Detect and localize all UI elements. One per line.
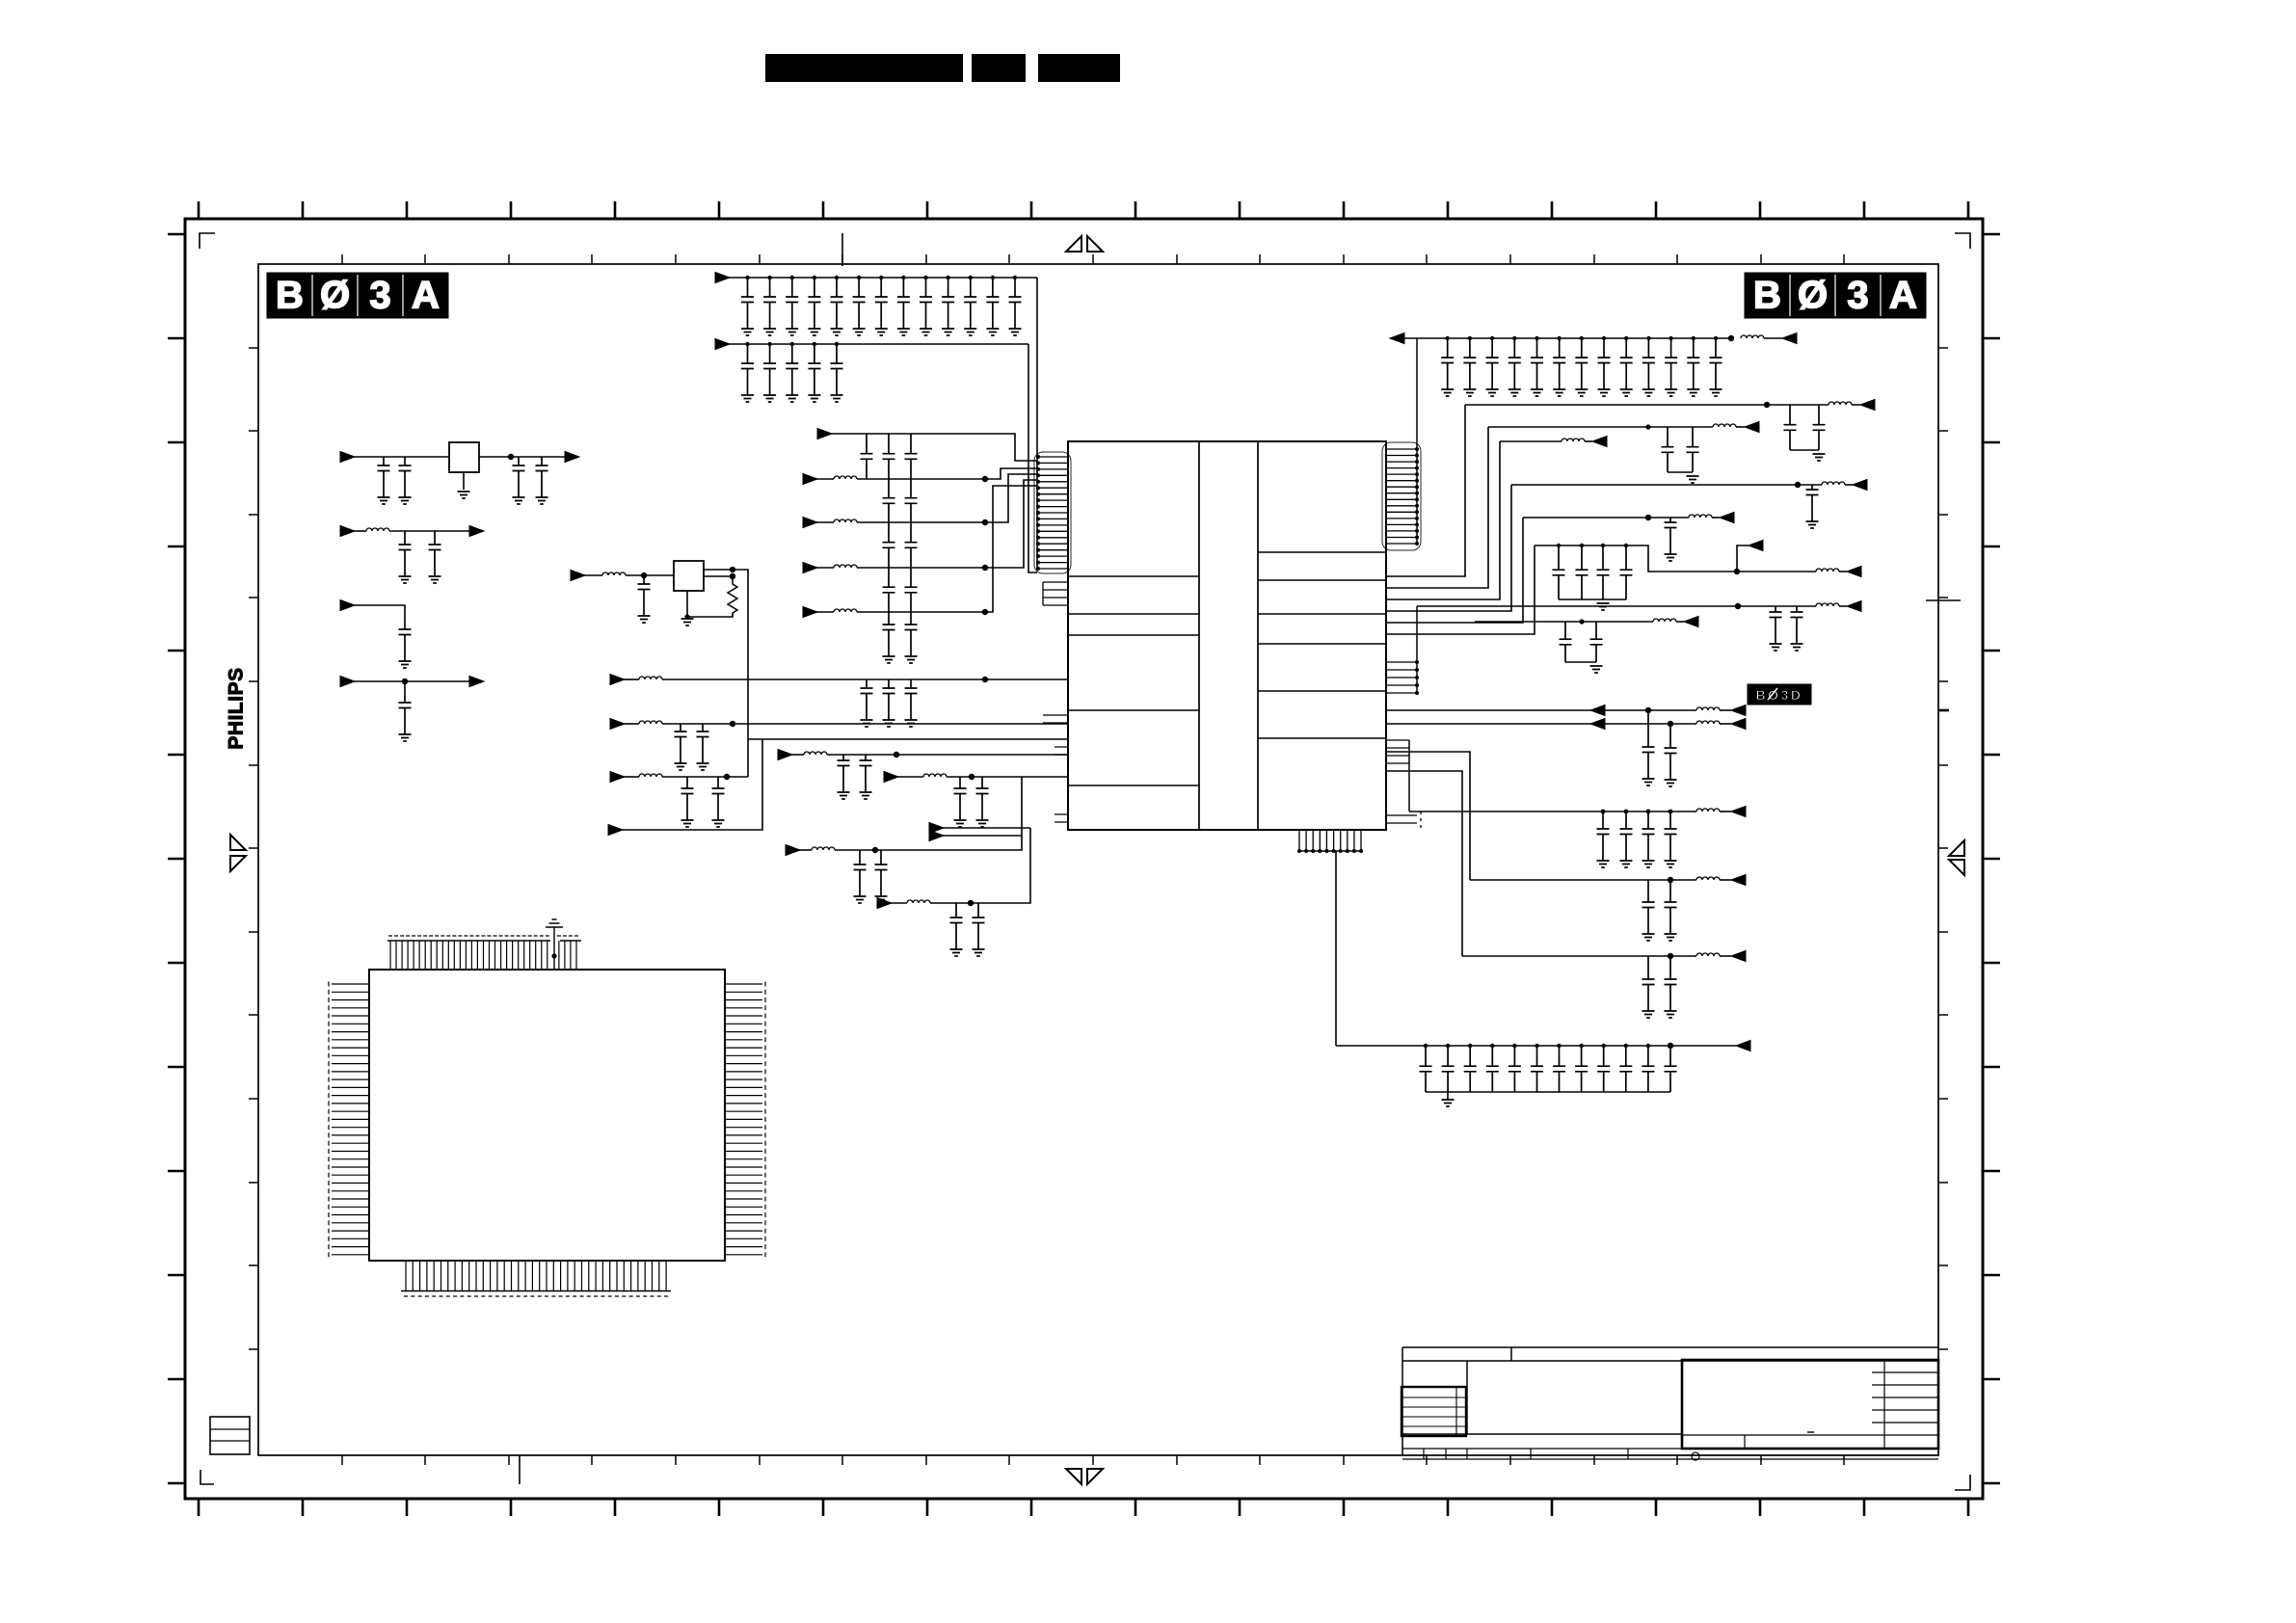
ground [1687, 389, 1699, 396]
off-page connector arrow A12 [803, 607, 817, 618]
capacitor C63 [950, 903, 963, 949]
junction J62 [1668, 721, 1673, 727]
wire U3 ground pin (top) [553, 927, 555, 970]
capacitor C23 [786, 344, 798, 395]
ground [1806, 521, 1819, 528]
off-page connector arrow A25 [1592, 437, 1607, 447]
off-page connector arrow A10 [803, 518, 817, 528]
inductor L1 [366, 528, 389, 531]
alignment triangle pair top centre [1066, 236, 1103, 252]
inner border tick marks top [342, 254, 1844, 264]
capacitor C15 [897, 278, 910, 329]
ground [741, 329, 754, 335]
voltage regulator U2 [449, 442, 479, 472]
capacitor C73 [1597, 545, 1610, 599]
junction J26 [1468, 336, 1472, 340]
off-page connector arrow A9 [803, 474, 817, 485]
corner mark bottom-left [200, 1470, 214, 1484]
ground [942, 329, 954, 335]
wire [857, 480, 1037, 568]
title block registration circle [1692, 1452, 1699, 1460]
capacitor C22 [763, 344, 776, 395]
svg-text:A: A [412, 275, 440, 317]
ground [838, 792, 850, 799]
wire [943, 827, 1030, 829]
wire [624, 723, 639, 725]
wire [943, 835, 1022, 837]
wire [704, 576, 733, 581]
off-page connector arrow A37 [1736, 1041, 1750, 1051]
wire [1462, 955, 1696, 957]
junction J72 [1490, 1044, 1494, 1048]
inner border long centre tick bottom [519, 1455, 521, 1484]
inductor L2 [602, 572, 626, 575]
outer border tick marks right [1983, 234, 2000, 1483]
capacitor C78 [1590, 622, 1603, 662]
ground [681, 619, 694, 625]
inductor L10 [1816, 603, 1839, 606]
ground [1687, 476, 1699, 483]
IC U3 top pin end ticks [388, 935, 578, 937]
off-page connector arrow A5 [715, 273, 730, 283]
wire bank ground stem [1447, 1092, 1449, 1100]
off-page connector arrow A4 [571, 571, 585, 581]
capacitor C60 [712, 777, 725, 820]
junction J69 [1424, 1044, 1428, 1048]
junction J64 [1624, 810, 1629, 814]
corner mark top-left [200, 233, 215, 249]
junction J59 [1735, 603, 1741, 609]
wire [799, 849, 812, 851]
inductor L2 [834, 519, 857, 522]
wire VDD bus 1 drop to IC [1036, 278, 1038, 569]
wire [1523, 517, 1689, 519]
ground [883, 720, 895, 727]
inductor L11 [907, 900, 930, 903]
capacitor C38 [1710, 338, 1722, 389]
capacitor C17 [942, 278, 954, 329]
capacitor C14 [875, 278, 888, 329]
capacitor C59 [681, 777, 694, 820]
capacitor C30 [1531, 338, 1543, 389]
off-page connector arrow A7 [1390, 333, 1404, 344]
capacitor C40 [883, 434, 895, 479]
IC U1 right column section dividers [1258, 552, 1386, 738]
wire [831, 434, 1037, 461]
ground [697, 763, 709, 770]
wire [1511, 484, 1822, 486]
wire [729, 343, 1028, 345]
ground [378, 497, 390, 504]
resistor R1 [728, 581, 737, 616]
alignment triangle pair right centre [1949, 840, 1964, 875]
off-page connector arrow A28 [1749, 541, 1763, 551]
capacitor C99 [1642, 1046, 1654, 1092]
svg-text:Ø: Ø [1798, 275, 1828, 317]
capacitor C18 [964, 278, 976, 329]
wire [827, 754, 1068, 756]
title block small dash [1807, 1431, 1814, 1433]
ground [536, 497, 548, 504]
junction J71 [1468, 1044, 1472, 1048]
ground [1442, 1100, 1455, 1106]
wire [662, 723, 1068, 725]
junction J50 [1764, 402, 1770, 408]
title block bottom strip [1402, 1449, 1938, 1459]
wire cap pair bottom join [1565, 661, 1596, 663]
capacitor C21 [741, 344, 754, 395]
capacitor C67 [1662, 427, 1674, 472]
capacitor C79 [1642, 710, 1655, 779]
junction J78 [1624, 1044, 1628, 1048]
wire [1386, 771, 1462, 956]
wire [1386, 752, 1470, 880]
wire [816, 611, 834, 613]
capacitor C77 [1560, 622, 1572, 662]
off-page connector arrow A34 [1731, 807, 1746, 817]
ground [1791, 644, 1803, 651]
junction J16 [946, 276, 949, 279]
capacitor C92 [1486, 1046, 1499, 1092]
wire [1764, 337, 1782, 339]
crystal oscillator module X1 [674, 561, 704, 591]
junction J81 [1668, 1043, 1673, 1049]
inductor L4 [834, 609, 857, 612]
inductor L3 [834, 565, 857, 568]
junction J11 [835, 276, 839, 279]
junction J17 [969, 276, 973, 279]
ground [905, 720, 918, 727]
outer border tick marks left [168, 234, 185, 1483]
inductor L6 [1562, 439, 1585, 441]
wire [1028, 344, 1037, 572]
off-page connector arrow filter row 2 out [469, 526, 484, 537]
wire [354, 680, 469, 682]
capacitor C6 [429, 531, 441, 576]
wire cap pair bottom join [1668, 471, 1693, 473]
IC U3 left pin end ticks [328, 982, 330, 1258]
capacitor C45 [905, 522, 918, 568]
junction J49 [968, 900, 974, 906]
ground [1620, 861, 1633, 867]
IC U1 internal column line right [1257, 441, 1259, 830]
junction J63 [1601, 810, 1606, 814]
capacitor C50 [861, 679, 873, 720]
wire [1390, 337, 1731, 339]
ground [1441, 389, 1454, 396]
capacitor C47 [905, 568, 918, 612]
title block top divider [1510, 1347, 1512, 1361]
capacitor C19 [986, 278, 999, 329]
redacted title bar 1 [765, 54, 963, 82]
wire [1409, 811, 1696, 812]
capacitor C72 [1576, 545, 1589, 599]
title block main box rows [1682, 1360, 1938, 1449]
wire [729, 277, 1037, 279]
wire [1465, 404, 1829, 406]
capacitor C84 [1665, 811, 1677, 861]
ground [854, 896, 867, 903]
ground [638, 616, 651, 623]
capacitor C25 [831, 344, 843, 395]
junction J15 [923, 276, 927, 279]
ground [712, 820, 725, 827]
inductor L5 [639, 677, 662, 679]
inductor L14 [1696, 809, 1720, 811]
inner border frame [258, 264, 1938, 1455]
ground [399, 497, 412, 504]
junction J21 [767, 342, 771, 346]
capacitor C65 [1784, 405, 1797, 450]
wire capacitor bank bottom bus [1426, 1091, 1670, 1093]
junction J76 [1579, 1044, 1583, 1048]
junction J34 [1646, 336, 1650, 340]
IC U1 pin group left B [1043, 582, 1068, 605]
wire regulator output [479, 456, 565, 458]
IC U1 left column section dividers [1068, 576, 1199, 785]
ground [1710, 389, 1722, 396]
inductor L15 [1696, 877, 1720, 880]
capacitor C95 [1553, 1046, 1565, 1092]
capacitor C96 [1575, 1046, 1588, 1092]
ground [513, 497, 525, 504]
wire [1585, 440, 1592, 442]
IC U3 top pin crossbar [387, 940, 581, 942]
off-page connector arrow A18 [608, 825, 623, 836]
off-page connector arrow VREG out [565, 452, 579, 463]
capacitor C36 [1665, 338, 1677, 389]
wire [816, 478, 834, 480]
IC U1 pin group left C [1043, 715, 1068, 723]
off-page connector arrow A24 [1745, 422, 1759, 433]
svg-text:PHILIPS: PHILIPS [226, 667, 248, 749]
capacitor C68 [1687, 427, 1699, 472]
wire [622, 739, 762, 830]
capacitor C98 [1619, 1046, 1632, 1092]
junction dots pin group right B [1415, 660, 1419, 695]
ground [1590, 666, 1603, 673]
wire [1386, 545, 1535, 634]
capacitor C42 [883, 479, 895, 522]
off-page connector arrow A3 [340, 677, 355, 687]
wire AVDD drop to pin group right A [1416, 338, 1418, 544]
capacitor C88 [1665, 956, 1677, 1011]
capacitor C7 [638, 575, 651, 616]
sheet micro-table bottom-left [210, 1417, 250, 1454]
ground [920, 329, 932, 335]
capacitor C58 [976, 777, 989, 820]
wire [857, 468, 1037, 479]
junction J6 [684, 614, 689, 619]
redacted title bar 3 [1038, 54, 1120, 82]
capacitor C62 [875, 850, 888, 896]
wire pin group right C bus [1408, 740, 1410, 811]
off-page connector arrow A15 [778, 750, 792, 760]
junction J4 [730, 567, 735, 572]
wire [624, 678, 639, 680]
wire [1488, 426, 1713, 428]
capacitor C82 [1620, 811, 1633, 861]
off-page connector arrow VIN [340, 452, 355, 463]
sheet code label B03A top-left [267, 273, 448, 318]
ground [399, 734, 412, 741]
title block column divider [1466, 1361, 1468, 1434]
capacitor C97 [1597, 1046, 1610, 1092]
outer border tick marks bottom [199, 1499, 1968, 1516]
off-page connector arrow A32 [1731, 705, 1746, 716]
wire [1720, 709, 1731, 711]
wire [1839, 605, 1847, 607]
capacitor C3 [513, 457, 525, 497]
junction J51 [1645, 424, 1650, 429]
junction J9 [790, 276, 794, 279]
capacitor C90 [1442, 1046, 1455, 1092]
ground [897, 329, 910, 335]
inductor L1 [834, 476, 857, 479]
capacitor C44 [883, 522, 895, 568]
ground [429, 576, 441, 583]
inner border long centre tick right [1926, 599, 1961, 601]
junction J20 [745, 342, 749, 346]
capacitor C9 (electrolytic) [399, 623, 412, 661]
wire cluster bottom join [1559, 599, 1626, 600]
signal direction arrow [1590, 719, 1605, 730]
ground [973, 949, 985, 956]
ground [861, 720, 873, 727]
ground [1665, 934, 1677, 941]
inductor L11 [1653, 619, 1676, 622]
capacitor C12 [831, 278, 843, 329]
IC U1 pin stubs right D [1386, 811, 1421, 828]
junction J77 [1602, 1044, 1606, 1048]
IC U1 pin group bottom [1299, 830, 1361, 851]
inductor L16 [1696, 953, 1720, 956]
off-page connector arrow A33 [1731, 719, 1746, 730]
junction J58 [1734, 569, 1740, 574]
junction J14 [901, 276, 905, 279]
ground [976, 820, 989, 827]
wire [897, 776, 923, 778]
inductor L9 [639, 774, 662, 777]
off-page connector arrow A27 [1720, 513, 1734, 523]
junction J57 [1624, 544, 1628, 547]
capacitor C54 [697, 724, 709, 763]
wire [816, 521, 834, 523]
capacitor C29 [1508, 338, 1521, 389]
wire [748, 738, 1068, 740]
ground [1665, 554, 1677, 561]
capacitor C89 [1420, 1046, 1432, 1092]
wire [1720, 723, 1731, 725]
inductor L6 [639, 721, 662, 724]
junction J68 [1668, 953, 1673, 959]
off-page connector arrow A13 [610, 675, 625, 685]
IC U1 pin group left A (pins 1-19) [1038, 457, 1068, 569]
IC U1 pin group right C [1386, 740, 1409, 763]
off-page connector arrow A14 [610, 719, 625, 730]
inductor L10 [812, 847, 835, 850]
sheet reference label B03D [1748, 684, 1811, 705]
inductor L5 [1713, 424, 1736, 427]
wire cap pair bottom join [1790, 449, 1819, 451]
wire [1386, 518, 1523, 623]
ground [883, 656, 895, 663]
junction J18 [991, 276, 995, 279]
off-page connector arrow A2 [340, 600, 355, 611]
wire [857, 474, 1037, 522]
capacitor C10 (electrolytic) [399, 696, 412, 734]
wire pin group bottom bus [1299, 850, 1361, 852]
wire [1535, 545, 1816, 572]
IC U3 bottom pin crossbar [401, 1290, 671, 1292]
ground [1642, 389, 1655, 396]
wire [791, 754, 804, 756]
capacitor C57 [954, 777, 967, 820]
junction J7 [745, 276, 749, 279]
capacitor C64 [973, 903, 985, 949]
IC U1 pin group right B [1386, 662, 1417, 693]
capacitor C5 [399, 531, 412, 576]
wire [704, 570, 748, 777]
wire [1336, 1045, 1736, 1047]
junction J10 [813, 276, 816, 279]
wire [354, 605, 405, 623]
ground [1770, 644, 1782, 651]
capacitor C91 [1464, 1046, 1477, 1092]
svg-text:Ø: Ø [320, 275, 350, 317]
junction J56 [1601, 544, 1605, 547]
junction J45 [894, 752, 899, 758]
ground [763, 395, 776, 402]
off-page connector arrow A30 [1847, 601, 1861, 612]
inductor L12 [1696, 707, 1720, 710]
ground [1620, 389, 1633, 396]
wire [891, 902, 907, 904]
capacitor C51 [883, 679, 895, 720]
ground [1553, 389, 1565, 396]
off-page connector arrow A29 [1847, 567, 1861, 577]
IC U1 pin group right A (pins 20-38) [1386, 449, 1417, 544]
ground [831, 329, 843, 335]
inductor L8 [1689, 515, 1712, 518]
wire cap stub [404, 681, 406, 696]
wire [354, 456, 449, 458]
svg-text:A: A [1889, 275, 1917, 317]
junction J66 [1669, 810, 1673, 814]
capacitor C55 [838, 755, 850, 792]
wire [1845, 484, 1853, 486]
wire [1386, 709, 1696, 711]
svg-text:B: B [276, 275, 304, 317]
svg-text:3: 3 [369, 275, 390, 317]
capacitor C13 [853, 278, 866, 329]
capacitor C52 [905, 679, 918, 720]
ground [1642, 1011, 1655, 1018]
inner border tick marks right [1938, 348, 1948, 1349]
IC U1 internal column line left [1198, 441, 1200, 830]
inner border long centre tick top [841, 233, 843, 266]
inductor L4 [1829, 402, 1852, 405]
capacitor C20 [1009, 278, 1022, 329]
svg-text:3: 3 [1847, 275, 1868, 317]
capacitor C26 [1441, 338, 1454, 389]
IC U3 (microcontroller QFP) body [369, 970, 725, 1261]
ground [1598, 389, 1611, 396]
ground [853, 329, 866, 335]
ground [950, 949, 963, 956]
ground [1597, 603, 1610, 610]
junction J25 [1446, 336, 1450, 340]
